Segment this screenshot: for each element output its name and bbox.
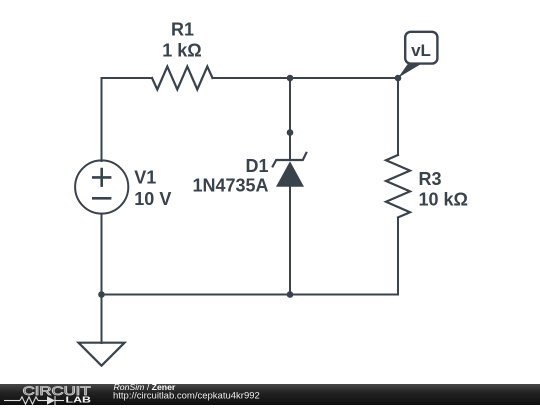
wire: V1 bottom to bus	[101, 214, 103, 295]
wire: bottom bus	[102, 294, 399, 296]
CircuitLab logo doodle	[4, 396, 64, 405]
wire: node A to node vL	[290, 77, 398, 79]
junction dot node vL	[395, 75, 402, 82]
junction dot bottom-middle	[287, 291, 294, 298]
resistor R3	[386, 155, 410, 217]
wire: zener top branch	[289, 78, 291, 160]
resistor R1	[152, 67, 213, 90]
svg-text:1N4735A: 1N4735A	[192, 176, 268, 196]
svg-text:R3: R3	[419, 169, 442, 189]
wire: R1 to node A	[213, 77, 291, 79]
wire: top-left corner V1 to R1	[102, 78, 153, 161]
svg-text:LAB: LAB	[66, 396, 92, 405]
junction dot zener top	[287, 129, 294, 136]
svg-text:D1: D1	[245, 156, 268, 176]
zener diode D1 triangle	[276, 161, 304, 187]
wire: vL node down to R3	[397, 78, 399, 155]
svg-text:R1: R1	[171, 19, 194, 39]
zener diode D1 cathode bar	[273, 153, 307, 167]
svg-text:10 kΩ: 10 kΩ	[419, 190, 468, 210]
ground	[79, 343, 125, 366]
wire: R3 to bottom bus	[397, 218, 399, 295]
svg-text:V1: V1	[134, 167, 156, 187]
svg-text:http://circuitlab.com/cepkatu4: http://circuitlab.com/cepkatu4kr992	[113, 391, 260, 402]
junction dot bottom-left	[98, 291, 105, 298]
junction dot node A	[287, 75, 294, 82]
wire: zener bottom branch	[289, 187, 291, 295]
wire: ground stem	[101, 295, 103, 344]
svg-text:1 kΩ: 1 kΩ	[162, 41, 201, 61]
svg-text:vL: vL	[411, 41, 431, 60]
node label vL box	[398, 32, 437, 78]
footer bar	[0, 384, 540, 405]
voltage source V1	[75, 160, 128, 213]
svg-text:10 V: 10 V	[134, 189, 171, 209]
